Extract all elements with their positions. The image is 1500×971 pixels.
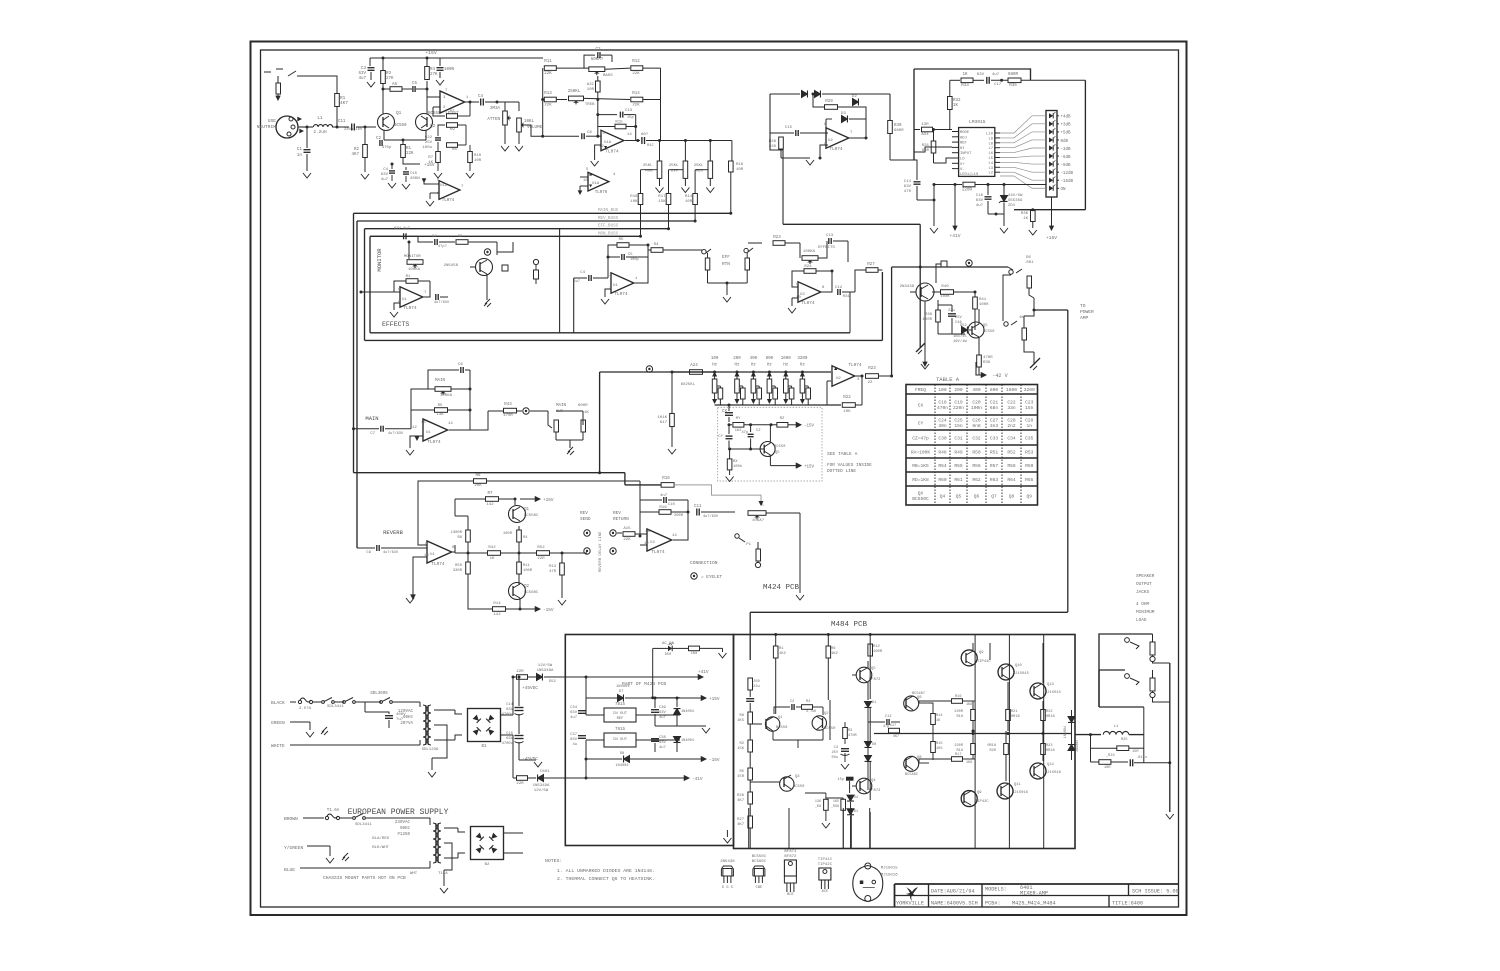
svg-text:12: 12 [599, 145, 604, 149]
svg-text:10K: 10K [843, 410, 851, 414]
svg-text:63V: 63V [904, 185, 912, 189]
svg-text:4u7: 4u7 [976, 204, 984, 208]
svg-text:U1: U1 [613, 284, 618, 288]
svg-text:1K: 1K [490, 557, 495, 561]
svg-text:SDL3411: SDL3411 [355, 823, 372, 827]
svg-text:10R: 10R [587, 88, 595, 92]
svg-text:R23: R23 [773, 236, 781, 240]
svg-text:-15V: -15V [543, 608, 554, 613]
svg-text:47p?: 47p? [438, 245, 447, 249]
svg-text:-3dB: -3dB [1061, 147, 1072, 152]
svg-text:1N9004: 1N9004 [1064, 726, 1068, 738]
svg-text:U1A: U1A [604, 141, 612, 145]
svg-text:M484 PCB: M484 PCB [831, 621, 868, 629]
svg-text:20K: 20K [474, 484, 482, 488]
svg-text:C29: C29 [1025, 418, 1034, 424]
svg-text:4K7: 4K7 [737, 823, 744, 827]
svg-text:-12dB: -12dB [1061, 171, 1074, 176]
svg-text:BC560C: BC560C [524, 591, 539, 595]
svg-text:47R: 47R [549, 570, 557, 574]
svg-text:-45VDC: -45VDC [522, 757, 538, 762]
svg-text:1K2: 1K2 [779, 652, 787, 656]
svg-text:Q1: Q1 [524, 508, 530, 512]
svg-text:4700u: 4700u [502, 713, 513, 717]
svg-text:U2: U2 [828, 139, 833, 143]
svg-text:CY: CY [918, 420, 924, 426]
svg-text:16V/1W: 16V/1W [953, 339, 967, 344]
svg-text:Q7: Q7 [991, 493, 997, 499]
svg-text:R3: R3 [848, 729, 852, 733]
svg-text:C34: C34 [570, 706, 578, 710]
svg-text:Q9: Q9 [1026, 493, 1032, 499]
svg-text:D50: D50 [665, 653, 671, 657]
svg-text:C5: C5 [628, 253, 633, 257]
svg-text:330R: 330R [453, 569, 463, 573]
svg-text:D52: D52 [960, 324, 968, 328]
svg-text:R38: R38 [925, 313, 933, 317]
svg-text:R16: R16 [630, 195, 638, 199]
svg-text:220R: 220R [954, 710, 963, 714]
svg-text:1N4004: 1N4004 [616, 764, 629, 768]
svg-text:100n: 100n [971, 405, 982, 411]
svg-text:15R: 15R [737, 775, 745, 779]
svg-text:A5: A5 [392, 83, 398, 87]
svg-text:CHASSIS MOUNT PARTS NOT ON PCB: CHASSIS MOUNT PARTS NOT ON PCB [323, 875, 406, 881]
svg-text:220R: 220R [962, 189, 973, 193]
svg-text:Q14: Q14 [1047, 763, 1055, 767]
svg-text:10R: 10R [1104, 766, 1111, 770]
svg-text:R3: R3 [386, 72, 392, 76]
svg-text:Q2: Q2 [824, 712, 829, 716]
svg-text:IN OUT: IN OUT [613, 738, 628, 742]
svg-text:2N3438: 2N3438 [900, 285, 915, 289]
svg-text:R1: R1 [406, 147, 412, 151]
svg-text:R12: R12 [632, 60, 640, 64]
svg-text:P1: P1 [746, 543, 751, 547]
svg-text:A0?: A0? [641, 133, 649, 137]
svg-text:14: 14 [672, 534, 677, 538]
svg-text:4u7: 4u7 [659, 716, 666, 720]
svg-text:MAIN: MAIN [365, 415, 378, 422]
svg-text:100R: 100R [873, 650, 883, 654]
svg-text:TL074: TL074 [403, 306, 417, 311]
svg-text:D1: D1 [854, 810, 858, 814]
svg-text:15: 15 [421, 421, 426, 425]
svg-text:MONITOR: MONITOR [404, 255, 421, 259]
svg-text:OUTPUT: OUTPUT [1136, 582, 1152, 587]
svg-text:22R: 22R [537, 557, 545, 561]
svg-text:C15: C15 [785, 126, 793, 130]
svg-text:R4: R4 [806, 700, 810, 704]
svg-text:BC550: BC550 [983, 330, 995, 334]
svg-text:100K: 100K [940, 295, 950, 299]
svg-text:250KL: 250KL [568, 90, 581, 94]
svg-text:C6: C6 [458, 363, 463, 367]
svg-text:14: 14 [448, 422, 453, 426]
svg-text:25V: 25V [832, 751, 839, 755]
svg-text:MIXER-AMP: MIXER-AMP [1020, 891, 1048, 897]
svg-text:TIP42C: TIP42C [818, 863, 833, 867]
svg-text:25V: 25V [425, 141, 433, 145]
svg-text:C16: C16 [976, 194, 984, 198]
svg-text:100: 100 [938, 387, 947, 393]
svg-text:MJ15016: MJ15016 [1012, 791, 1029, 795]
svg-text:D1K1: D1K1 [540, 770, 550, 774]
svg-text:1600: 1600 [781, 357, 792, 361]
svg-text:15n: 15n [1025, 405, 1034, 411]
svg-text:400: 400 [750, 357, 758, 361]
svg-text:1K5: 1K5 [737, 719, 745, 723]
svg-text:SPEAKER: SPEAKER [1136, 574, 1155, 579]
svg-text:R36: R36 [1021, 212, 1029, 216]
svg-text:.001: .001 [1024, 261, 1034, 265]
svg-text:_R24: _R24 [1105, 754, 1115, 758]
svg-text:R7: R7 [487, 492, 493, 496]
svg-text:U1: U1 [402, 298, 407, 302]
svg-text:D7: D7 [619, 690, 624, 694]
svg-text:R14: R14 [685, 195, 693, 199]
svg-text:C13: C13 [826, 234, 834, 238]
svg-text:25KL: 25KL [643, 164, 653, 168]
svg-text:R17: R17 [658, 195, 666, 199]
svg-text:100K: 100K [979, 303, 989, 307]
svg-text:-15V: -15V [709, 758, 720, 763]
svg-text:-15dB: -15dB [1061, 179, 1074, 184]
svg-text:SDL3695: SDL3695 [370, 692, 388, 696]
svg-text:Q9: Q9 [977, 791, 982, 795]
svg-text:BASS: BASS [603, 74, 613, 78]
svg-text:101K: 101K [657, 416, 667, 420]
svg-text:RB=1K5: RB=1K5 [912, 463, 929, 469]
svg-text:1N4004: 1N4004 [681, 710, 694, 714]
svg-text:Hz: Hz [767, 364, 773, 368]
svg-text:RA=100K: RA=100K [911, 449, 931, 455]
svg-text:TIP42C: TIP42C [975, 800, 989, 804]
svg-text:0R18: 0R18 [1046, 749, 1055, 753]
svg-text:K17: K17 [660, 421, 668, 425]
svg-text:22K: 22K [632, 104, 640, 108]
svg-text:Hz: Hz [734, 364, 740, 368]
svg-text:800: 800 [990, 387, 999, 393]
svg-text:R22: R22 [1046, 710, 1052, 714]
svg-text:EFFECTS: EFFECTS [382, 321, 409, 328]
svg-text:-42 V: -42 V [992, 373, 1008, 379]
svg-text:100R: 100R [523, 569, 533, 573]
svg-text:D G S: D G S [722, 886, 733, 890]
svg-text:63V: 63V [659, 741, 667, 745]
svg-text:100R: 100R [922, 318, 932, 322]
svg-text:22K: 22K [406, 152, 414, 156]
svg-text:4u7: 4u7 [403, 227, 410, 231]
svg-text:INPUT: INPUT [960, 152, 972, 156]
svg-text:1N4004: 1N4004 [681, 739, 694, 743]
svg-text:Hz: Hz [751, 364, 757, 368]
svg-text:C38: C38 [659, 736, 667, 740]
svg-text:MONITOR: MONITOR [376, 248, 383, 272]
svg-text:470: 470 [904, 190, 912, 194]
svg-text:10R: 10R [685, 200, 693, 204]
svg-text:R29: R29 [825, 100, 833, 104]
svg-text:C22: C22 [1007, 400, 1016, 406]
svg-text:1K: 1K [1023, 217, 1028, 221]
svg-text:R8: R8 [739, 714, 744, 718]
svg-text:R61: R61 [954, 477, 963, 483]
svg-text:+15V: +15V [425, 50, 437, 56]
svg-text:0dB: 0dB [1061, 139, 1069, 144]
svg-text:L3: L3 [988, 167, 993, 171]
svg-text:C28: C28 [1007, 418, 1016, 424]
svg-text:SDL3411: SDL3411 [327, 705, 344, 709]
svg-text:MODE: MODE [960, 131, 970, 135]
svg-text:D4: D4 [854, 796, 858, 800]
svg-text:R4: R4 [654, 243, 659, 247]
svg-text:2N5458: 2N5458 [444, 264, 459, 268]
svg-text:C23: C23 [1025, 400, 1034, 406]
svg-text:4u7: 4u7 [381, 178, 389, 182]
svg-text:C19: C19 [954, 400, 963, 406]
svg-text:470R: 470R [848, 734, 857, 738]
svg-text:C18: C18 [938, 400, 947, 406]
svg-text:4K7: 4K7 [737, 799, 744, 803]
svg-text:LO: LO [960, 158, 965, 162]
svg-text:6n8: 6n8 [972, 423, 981, 429]
svg-text:C33: C33 [990, 435, 999, 441]
svg-text:FOR VALUES INSIDE: FOR VALUES INSIDE [827, 463, 872, 468]
svg-text:D6: D6 [1026, 256, 1031, 260]
svg-text:R27: R27 [737, 818, 744, 822]
svg-text:0R18: 0R18 [1046, 715, 1055, 719]
svg-text:R8: R8 [452, 148, 457, 152]
svg-text:C22: C22 [425, 136, 433, 140]
svg-text:+15V: +15V [1046, 235, 1057, 241]
svg-text:10KA?: 10KA? [752, 519, 765, 523]
svg-text:C15: C15 [410, 172, 418, 176]
svg-text:C24: C24 [938, 418, 947, 424]
svg-text:Hz: Hz [800, 364, 806, 368]
svg-text:RX: RX [733, 460, 738, 464]
svg-text:1K: 1K [953, 104, 959, 108]
svg-text:15n: 15n [954, 423, 963, 429]
svg-text:BC560C: BC560C [752, 860, 767, 864]
svg-text:R2: R2 [354, 148, 360, 152]
svg-text:REF: REF [617, 717, 625, 721]
svg-text:R54: R54 [938, 463, 947, 469]
svg-text:BF872: BF872 [784, 855, 797, 859]
svg-text:R53: R53 [1025, 449, 1034, 455]
svg-text:U1A: U1A [592, 182, 600, 186]
svg-text:R9: R9 [457, 536, 462, 540]
svg-text:CX: CX [918, 402, 924, 408]
svg-text:YORKVILLE: YORKVILLE [896, 901, 924, 907]
svg-text:3200: 3200 [1024, 387, 1035, 393]
svg-text:10R: 10R [474, 159, 482, 163]
svg-text:BC546?: BC546? [912, 692, 925, 696]
svg-text:22R: 22R [516, 670, 524, 674]
svg-text:C27: C27 [990, 418, 999, 424]
svg-text:C4: C4 [383, 168, 388, 172]
svg-text:ZD1: ZD1 [1008, 204, 1016, 208]
svg-text:R7: R7 [428, 156, 433, 160]
svg-text:C11: C11 [694, 505, 702, 509]
svg-text:R4: R4 [430, 68, 436, 72]
svg-text:Q11: Q11 [1014, 783, 1022, 787]
svg-text:2.5?A: 2.5?A [299, 707, 312, 711]
svg-text:33n: 33n [1007, 405, 1016, 411]
svg-text:10KL: 10KL [524, 120, 535, 124]
svg-text:RZ: RZ [780, 417, 785, 421]
svg-text:2n2: 2n2 [1007, 423, 1016, 429]
svg-text:63V: 63V [976, 199, 984, 203]
svg-text:R56: R56 [972, 463, 981, 469]
svg-text:+4dB: +4dB [1061, 115, 1072, 120]
svg-text:136: 136 [815, 800, 821, 804]
svg-text:Y/GREEN: Y/GREEN [284, 845, 304, 851]
svg-text:R27: R27 [867, 263, 875, 267]
svg-text:DOTTED LINE: DOTTED LINE [827, 469, 856, 474]
svg-text:Q2: Q2 [430, 124, 436, 129]
svg-text:+41V: +41V [698, 670, 709, 675]
svg-text:1K8: 1K8 [966, 761, 972, 765]
svg-text:NAME:6400V5.SCH: NAME:6400V5.SCH [931, 901, 978, 907]
svg-text:1N5349A: 1N5349A [533, 784, 550, 788]
svg-text:U2: U2 [836, 377, 841, 381]
svg-text:BC550: BC550 [793, 785, 805, 789]
svg-text:T1.6A: T1.6A [327, 809, 340, 813]
svg-text:200: 200 [954, 387, 963, 393]
svg-text:Q1: Q1 [396, 111, 402, 116]
svg-text:220R: 220R [954, 744, 963, 748]
svg-text:R19: R19 [736, 163, 744, 167]
svg-text:AC_ON: AC_ON [662, 642, 675, 646]
svg-text:0R18: 0R18 [1011, 715, 1020, 719]
svg-text:15R: 15R [1132, 750, 1139, 754]
svg-text:G55359: G55359 [1008, 199, 1023, 203]
svg-text:TL074: TL074 [442, 199, 455, 203]
svg-text:-9dB: -9dB [1061, 163, 1072, 168]
svg-text:R50: R50 [455, 564, 463, 568]
svg-text:BLACK: BLACK [271, 700, 285, 706]
svg-text:400: 400 [972, 387, 981, 393]
svg-text:220n: 220n [953, 405, 964, 411]
svg-text:20?VA: 20?VA [400, 722, 413, 726]
svg-text:R13: R13 [544, 92, 552, 96]
svg-text:+3dB: +3dB [1061, 123, 1072, 128]
svg-text:Q3: Q3 [795, 775, 800, 779]
svg-text:R5: R5 [619, 238, 624, 242]
svg-text:-41V: -41V [692, 777, 703, 782]
svg-text:100R: 100R [503, 532, 513, 536]
svg-text:4u7/63V: 4u7/63V [434, 300, 450, 305]
svg-text:4u: 4u [572, 743, 577, 747]
svg-text:MJ15015: MJ15015 [881, 867, 898, 871]
svg-text:R2: R2 [739, 742, 744, 746]
svg-text:R5: R5 [438, 404, 443, 408]
svg-text:BF872: BF872 [869, 678, 881, 682]
svg-text:_K8: _K8 [814, 805, 821, 809]
svg-text:TL074: TL074 [605, 150, 619, 155]
svg-text:D3: D3 [841, 112, 846, 116]
svg-text:230VAC: 230VAC [395, 821, 411, 825]
svg-text:+15V: +15V [709, 697, 720, 702]
svg-text:CX: CX [722, 410, 728, 414]
svg-text:C?: C? [595, 48, 601, 52]
svg-text:13: 13 [600, 132, 605, 136]
svg-text:4u7: 4u7 [992, 73, 1000, 77]
svg-text:Q5: Q5 [775, 451, 780, 455]
svg-text:WHT: WHT [410, 872, 418, 876]
svg-text:63V: 63V [977, 73, 985, 77]
svg-text:Q1: Q1 [778, 716, 783, 720]
svg-text:GREEN: GREEN [271, 720, 285, 726]
svg-text:4K7: 4K7 [351, 153, 359, 157]
svg-text:L9: L9 [988, 137, 993, 141]
svg-text:L4: L4 [988, 162, 993, 166]
svg-text:B1: B1 [481, 745, 487, 749]
svg-text:DATE:AUG/21/94: DATE:AUG/21/94 [931, 889, 975, 895]
svg-text:R40: R40 [941, 285, 949, 289]
svg-text:LM3915: LM3915 [969, 119, 986, 125]
svg-text:C2: C2 [790, 700, 794, 704]
svg-text:L5: L5 [988, 157, 993, 161]
svg-text:C8: C8 [587, 131, 592, 135]
svg-text:L8: L8 [988, 142, 993, 146]
svg-text:4u7/63V: 4u7/63V [388, 431, 404, 436]
svg-text:PCB#:: PCB#: [985, 901, 1001, 907]
svg-text:BCE: BCE [787, 893, 793, 897]
svg-text:TL074: TL074 [651, 550, 665, 555]
svg-text:R8: R8 [475, 474, 481, 478]
svg-text:TL074: TL074 [848, 363, 862, 368]
svg-text:C25: C25 [954, 418, 963, 424]
svg-text:R50: R50 [972, 449, 981, 455]
svg-text:R16: R16 [955, 695, 961, 699]
svg-text:Hz: Hz [712, 364, 718, 368]
svg-text:63V: 63V [394, 227, 402, 231]
svg-text:R65: R65 [1025, 477, 1034, 483]
svg-text:C15: C15 [506, 732, 514, 736]
svg-text:220u/16V: 220u/16V [344, 127, 363, 132]
svg-text:13R: 13R [921, 123, 929, 127]
svg-text:2. THERMAL CONNECT Q5 TO HEATS: 2. THERMAL CONNECT Q5 TO HEATSINK. [557, 876, 655, 882]
svg-text:1600: 1600 [1006, 387, 1017, 393]
svg-text:D1: D1 [872, 701, 876, 705]
svg-text:REV: REV [580, 511, 588, 516]
svg-text:BCE: BCE [822, 890, 828, 894]
svg-text:R49: R49 [954, 449, 963, 455]
svg-text:BC546C: BC546C [905, 773, 918, 777]
svg-text:T11A: T11A [438, 872, 448, 876]
svg-text:B2: B2 [485, 863, 490, 867]
svg-text:C3: C3 [361, 67, 367, 71]
svg-text:13K: 13K [436, 413, 444, 417]
svg-text:MJ15015: MJ15015 [1013, 672, 1030, 676]
svg-text:= EYELET: = EYELET [701, 575, 722, 580]
svg-text:MINIMUM: MINIMUM [1136, 610, 1155, 615]
svg-text:#1250: #1250 [397, 833, 410, 837]
svg-text:MJ15016: MJ15016 [881, 874, 898, 878]
svg-text:IN OUT: IN OUT [613, 712, 628, 716]
svg-text:12V/5W: 12V/5W [534, 788, 549, 793]
svg-text:-15V: -15V [804, 425, 815, 429]
svg-text:R31: R31 [843, 295, 851, 299]
svg-text:TABLE A: TABLE A [936, 376, 960, 383]
svg-text:CBE: CBE [756, 886, 762, 890]
svg-text:0R18: 0R18 [987, 744, 996, 748]
svg-text:15p: 15p [838, 778, 844, 782]
svg-text:R42: R42 [488, 546, 496, 550]
svg-text:M424 PCB: M424 PCB [763, 584, 800, 592]
svg-text:+5dB: +5dB [1061, 131, 1072, 136]
